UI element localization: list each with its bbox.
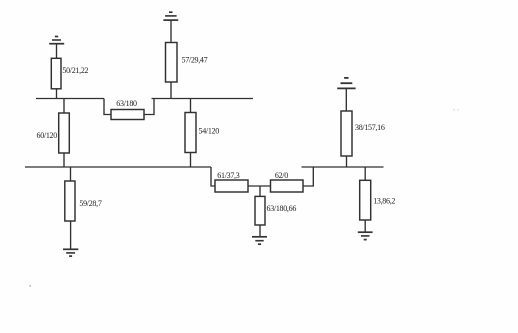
resistor R5 54/120 body bbox=[185, 113, 196, 153]
resistor R1 50/21,22 body bbox=[51, 58, 61, 89]
stray scan dot lower-left bbox=[29, 285, 31, 287]
wire bus2 to R6 59/28,7 bbox=[70, 167, 72, 181]
wire bus1 to R4 60/120 bbox=[63, 99, 65, 114]
stray scan dots right-centre bbox=[453, 109, 454, 110]
ground G4 (below R6) bbox=[63, 249, 78, 256]
node bus1 right segment bbox=[152, 98, 254, 100]
resistor R7 61/37,3 body bbox=[215, 180, 248, 192]
resistor R8 63/180,66 body bbox=[255, 196, 265, 225]
ground G3 (above R10) bbox=[337, 78, 355, 89]
wire R10 to bus3 bbox=[346, 156, 348, 167]
svg-text:54/120: 54/120 bbox=[199, 127, 220, 136]
svg-text:57/29,47: 57/29,47 bbox=[182, 55, 208, 64]
svg-text:63/180,66: 63/180,66 bbox=[267, 204, 297, 213]
wire bus1 to R3 63/180 left connector bbox=[104, 99, 111, 115]
svg-text:13,86,2: 13,86,2 bbox=[373, 197, 395, 206]
wire R1 to bus1 bbox=[56, 89, 58, 99]
wire junction node to R8 63/180,66 bbox=[259, 186, 261, 196]
wire R9 62/0 to bus3 bbox=[303, 167, 313, 186]
wire R7 to R9 62/0 bbox=[248, 185, 271, 187]
wire R6 to ground G4 bbox=[70, 221, 72, 249]
svg-text:62/0: 62/0 bbox=[275, 171, 288, 180]
resistor R3 63/180 body bbox=[111, 110, 144, 120]
node bus1 left segment bbox=[36, 98, 104, 100]
ground G6 (below R11) bbox=[358, 232, 373, 239]
wire ground G1 to R1 bbox=[56, 44, 58, 59]
wire bus1 to R5 54/120 bbox=[190, 99, 192, 113]
wire ground G3 to R10 bbox=[345, 88, 347, 111]
resistor R4 60/120 body bbox=[59, 113, 70, 153]
node bus3 bbox=[302, 166, 384, 168]
wire R11 to ground G6 bbox=[364, 220, 366, 232]
svg-text:59/28,7: 59/28,7 bbox=[79, 199, 101, 208]
svg-text:60/120: 60/120 bbox=[37, 131, 58, 140]
resistor R11 13,86,2 body bbox=[360, 180, 371, 220]
wire R2 to bus1 bbox=[170, 82, 172, 99]
svg-text:63/180: 63/180 bbox=[116, 99, 137, 108]
wire R3 63/180 right connector to bus1 bbox=[144, 99, 154, 115]
ground G2 (above R2) bbox=[163, 12, 178, 20]
wire ground G2 to R2 bbox=[170, 20, 172, 42]
resistor R9 62/0 body bbox=[271, 180, 304, 192]
svg-text:38/157,16: 38/157,16 bbox=[355, 123, 385, 132]
resistor R10 38/157,16 body bbox=[341, 111, 352, 156]
wire R5 to bus2 bbox=[190, 153, 192, 168]
wire bus3 to R11 13,86,2 bbox=[364, 167, 366, 180]
ground G5 (below R8) bbox=[252, 237, 267, 244]
resistor R2 57/29,47 body bbox=[166, 43, 178, 83]
resistor R6 59/28,7 body bbox=[65, 181, 75, 221]
wire bus2 down to R7 61/37,3 bbox=[211, 167, 215, 186]
wire R8 to ground G5 bbox=[259, 225, 261, 237]
node bus2 bbox=[25, 166, 211, 168]
svg-text:50/21,22: 50/21,22 bbox=[62, 66, 88, 75]
svg-text:61/37,3: 61/37,3 bbox=[217, 171, 239, 180]
wire R4 to bus2 bbox=[63, 153, 65, 167]
ground G1 (above R1) bbox=[49, 37, 64, 44]
